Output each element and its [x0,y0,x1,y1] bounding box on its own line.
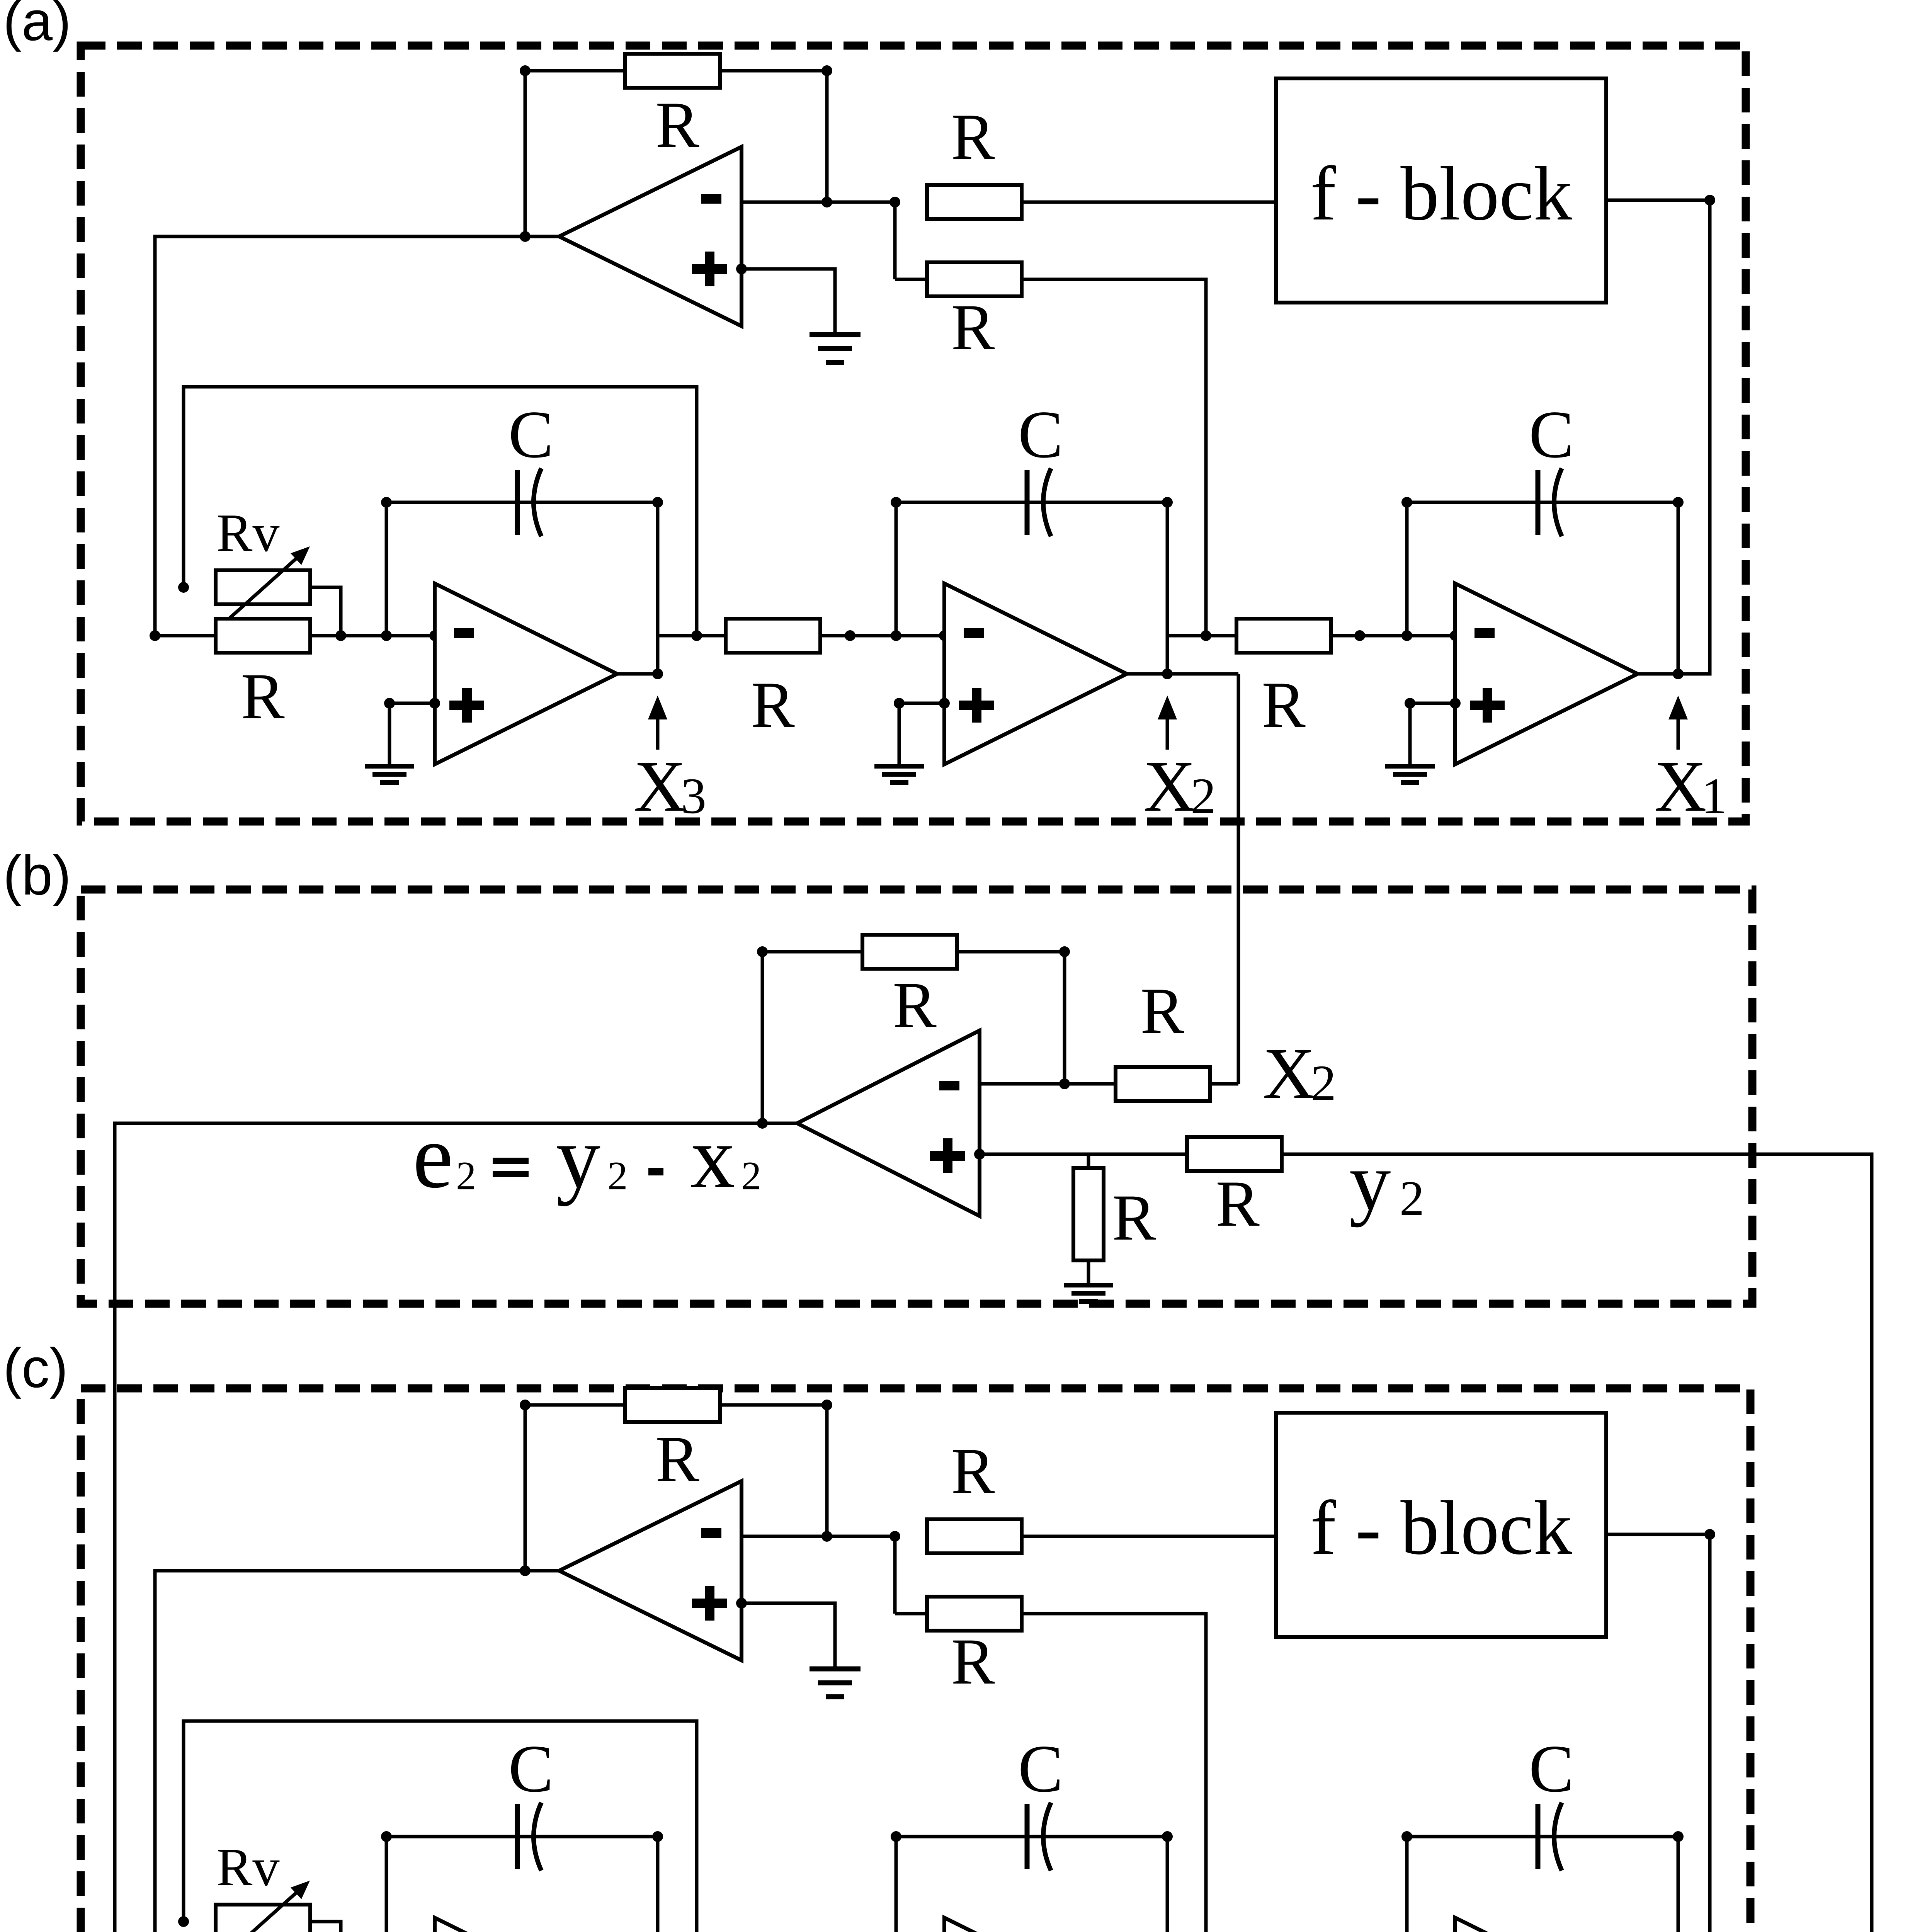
wire U4 plus to ground [1410,703,1455,766]
svg-text:3: 3 [681,767,706,824]
label C (U2) [509,397,554,472]
svg-text:R: R [655,1423,699,1495]
label C (U4) [1529,397,1574,472]
node int1 minus [429,630,440,641]
label X2 (a) [1143,746,1216,827]
ground (U6 plus) [810,1669,861,1697]
node U1 input line dot [520,231,531,242]
wire U6 feedback left vertical [524,1405,527,1571]
svg-text:C: C [509,1731,554,1806]
wire U2 cap-right vertical [656,502,660,674]
resistor R (y2 input) [1187,1137,1282,1171]
node U8 cap-right top [1162,1831,1173,1842]
wire upper R to f-block [1022,201,1276,204]
wire X2 drop to panel b [1237,674,1240,1084]
label R (U5 feedback) [893,969,937,1041]
wire U4 cap-left vertical [1405,502,1409,636]
wire U3 cap feedback line [896,501,1167,504]
node Rv left (c) [178,1916,189,1927]
label C (U3) [1018,397,1063,472]
wire lower branch vertical [893,202,897,279]
wire U1 feedback right vertical [825,71,829,202]
node U7 cap-left top [381,1831,392,1842]
wire X3 tee to R [658,634,726,638]
wire Rv right down [310,587,341,636]
label R (ground leg) [1112,1181,1156,1254]
wire U9 cap feedback line [1407,1835,1678,1838]
node U2 cap-left top [381,497,392,508]
svg-text:Rv: Rv [216,1837,279,1897]
capacitor C (U4) [1538,468,1562,536]
wire U1 output to left rail [155,236,559,636]
node U6 feedback top-right [821,1400,832,1410]
node U7 cap-right top [652,1831,663,1842]
wire upper R to f-block (c) [1022,1535,1276,1538]
node U5 feedback top-left [757,946,768,957]
label R (lower summing) [951,291,995,364]
wire U3 cap-right vertical [1166,502,1169,674]
op-amp U4 (integrator, points right) [1455,583,1638,764]
node U3 cap-left top [891,497,901,508]
wire U6 feedback to resistor [525,1403,625,1407]
wire lower R east then down to X2 node line [1022,279,1206,636]
wire U1 feedback right [720,69,827,73]
svg-text:C: C [1529,1731,1574,1806]
wire U6 feedback right [720,1403,827,1407]
wire U8 cap-left vertical [895,1837,898,1932]
wire R ground stub bottom [1087,1260,1090,1284]
op-amp U6 (inverter, points left) [559,1481,742,1660]
node U5 output line dot [757,1118,768,1129]
svg-text:R: R [893,969,937,1041]
wire U5 feedback left vertical [761,952,764,1123]
wire U1 feedback to resistor [525,69,625,73]
wire U4 cap-right vertical [1677,502,1680,674]
wire U5 feedback right [957,950,1065,954]
resistor R (U5 feedback) [862,935,957,969]
wire U5 plus input line [980,1153,1187,1156]
wire Rv loop top rail (c) [184,1721,697,1932]
node U3 output [1162,668,1173,679]
wire U6 plus to ground [742,1603,835,1669]
label X3 [634,746,706,827]
svg-text:R: R [951,100,995,173]
svg-text:R: R [951,1625,995,1698]
resistor R (stage 2-3) [1236,619,1331,653]
wire U2 cap feedback line [386,501,658,504]
op-amp U1 (inverter, points left) [559,147,742,326]
ground (U1 plus) [810,335,861,362]
node U3 cap-right top [1162,497,1173,508]
svg-text:R: R [241,660,285,733]
stroke Rv diagonal arrow [226,546,310,621]
node int2 minus [939,630,950,641]
label R (U1 feedback) [655,88,699,161]
svg-text:f - block: f - block [1310,151,1572,236]
label y2 (b) [1349,1135,1424,1228]
svg-text:2: 2 [607,1153,628,1198]
wire U6 feedback right vertical [825,1405,829,1536]
wire U4 cap feedback line [1407,501,1678,504]
wire Rv loop top rail [184,387,697,636]
node U5 feedback top-right [1059,946,1070,957]
svg-text:2: 2 [456,1153,476,1198]
wire U4 output [1638,672,1678,676]
resistor R (stage 1-2) [726,619,820,653]
node U4 plus corner [1405,698,1415,709]
op-amp U3 (integrator, points right) [944,583,1127,764]
node U6 minus junction [821,1531,832,1542]
wire lower branch to R [895,278,927,281]
label C (U8) [1018,1731,1063,1806]
svg-text:C: C [1529,397,1574,472]
node U4 plus [1450,698,1461,709]
wire U8 cap feedback line [896,1835,1167,1838]
panel (a) label [3,0,71,52]
node U3 plus [939,698,950,709]
wire U3 plus to ground [899,703,944,766]
svg-text:R: R [1140,975,1184,1047]
svg-text:(a): (a) [3,0,71,52]
wire U2 cap-left vertical [385,502,388,636]
arrow X2 [1158,696,1177,750]
panel (c) dashed border box [81,1388,1750,1932]
node f-block output dot [1704,195,1715,206]
label X1 [1654,746,1727,827]
node U2 cap-right top [652,497,663,508]
svg-text:R: R [1112,1181,1156,1254]
resistor R (to ground, b) [1073,1168,1104,1260]
op-amp U5 (subtractor, points left) [797,1031,980,1216]
node Rv-R junction [335,630,346,641]
wire U1 plus to ground [742,269,835,335]
wire main line to int1 [310,634,435,638]
svg-text:C: C [509,397,554,472]
wire R to int3 [1331,634,1455,638]
wire U3 cap-left vertical [895,502,898,636]
svg-text:R: R [1262,668,1306,741]
label R (stage 2-3) [1262,668,1306,741]
capacitor C (U7) [517,1803,541,1871]
node U6 feedback top-left [520,1400,531,1410]
resistor R (from y2 line, c) [927,1597,1022,1631]
node f-block output dot (c) [1704,1529,1715,1540]
svg-text:R: R [951,1435,995,1507]
wire R to int2 [820,634,944,638]
wire main line left segment [155,634,216,638]
wire U7 cap-left vertical [385,1837,388,1932]
arrow X3 [648,696,667,750]
node U9 cap-right top [1673,1831,1684,1842]
wire R ground stub top [1087,1154,1090,1168]
op-amp U9 (integrator, points right) [1455,1918,1638,1932]
resistor R (U6 feedback) [625,1388,720,1422]
label R (stage 1-2) [751,668,795,741]
node U6 plus dot [736,1598,747,1609]
svg-text:2: 2 [1190,767,1216,824]
wire U9 cap-left vertical [1405,1837,1409,1932]
node cap1 left junction [381,630,392,641]
resistor R (input, a) [216,619,310,653]
svg-text:(b): (b) [3,844,71,906]
wire f-block output down to X1 [1678,200,1710,674]
panel (b) label [3,844,71,906]
wire lower branch to R (c) [895,1612,927,1616]
node U1 minus junction [821,197,832,207]
ground (U4) [1385,766,1435,782]
capacitor C (U3) [1027,468,1051,536]
node X2 feed junction [1201,630,1211,641]
node summing junction A [889,197,900,207]
arrow X1 [1668,696,1688,750]
wire U5 minus input line [980,1082,1116,1086]
op-amp U7 (integrator, points right) [435,1918,617,1932]
node U1 feedback top-left [520,65,531,76]
wire U5 feedback right vertical [1063,952,1066,1084]
capacitor C (U8) [1027,1803,1051,1871]
wire U1 minus input line [742,201,895,204]
node U4 cap-right top [1673,497,1684,508]
svg-text:R: R [1216,1167,1260,1240]
wire lower R east then down (c) [1022,1614,1206,1932]
svg-text:X: X [1143,746,1196,827]
svg-text:C: C [1018,397,1063,472]
svg-text:2: 2 [741,1153,762,1198]
svg-text:2: 2 [1400,1171,1424,1226]
node cap2 left junction [891,630,901,641]
op-amp U2 (integrator, points right) [435,583,617,764]
capacitor C (U2) [517,468,541,536]
label X2 (b) [1263,1033,1336,1114]
svg-text:C: C [1018,1731,1063,1806]
node U2 output [652,668,663,679]
node U1 feedback top-right [821,65,832,76]
label R (U6 feedback) [655,1423,699,1495]
node main line left [150,630,160,641]
label f - block (c) [1310,1485,1572,1571]
svg-text:y: y [556,1108,600,1206]
node U4 cap-left top [1401,497,1412,508]
wire U6 minus input line [742,1535,895,1538]
wire U7 cap-right vertical [656,1837,660,1932]
wire U8 cap-right vertical [1166,1837,1169,1932]
wire f-block output down to y1 [1678,1534,1710,1932]
label R (y2 input) [1216,1167,1260,1240]
svg-text:2: 2 [1311,1054,1336,1111]
resistor R (from f-block output) [927,185,1022,219]
node U6 input line dot [520,1565,531,1576]
label R (input, a) [241,660,285,733]
svg-text:y: y [1349,1135,1391,1228]
svg-text:X: X [1654,746,1707,827]
panel (c) label [3,1337,68,1399]
wire lower branch vertical (c) [893,1536,897,1614]
wire e2 output rail [115,1123,797,1932]
svg-text:f - block: f - block [1310,1485,1572,1571]
wire U7 cap feedback line [386,1835,658,1838]
wire U2 plus to ground [389,703,435,766]
stroke Rv diagonal arrow (c) [226,1881,310,1932]
resistor R (U1 feedback) [625,54,720,88]
label R (upper summing) [951,100,995,173]
node U5 plus [974,1149,985,1160]
wire X2 R to drop [1210,1082,1238,1086]
wire y2 loop east and down [1240,1154,1872,1932]
node cap3 left junction [1401,630,1412,641]
wire Rv right down (c) [310,1922,341,1932]
wire X2 output to drop corner [1167,672,1238,676]
node U8 cap-left top [891,1831,901,1842]
panel (a) dashed border box [81,46,1746,821]
resistor R (from X2 line) [927,262,1022,296]
node U5 minus junction [1059,1078,1070,1089]
wire U3 output [1127,672,1167,676]
node after R 1-2 [845,630,855,641]
wire U2 output [617,672,658,676]
node int3 minus [1450,630,1461,641]
f-block box (a) [1276,78,1606,303]
svg-text:(c): (c) [3,1337,68,1399]
node Rv loop tee [691,630,702,641]
label e2 = y2 - x2 [413,1106,762,1207]
svg-text:X: X [634,746,686,827]
node after R 2-3 [1354,630,1365,641]
wire U6 output to left rail [155,1571,559,1932]
label R (upper summing, c) [951,1435,995,1507]
wire U5 feedback to resistor [762,950,862,954]
op-amp U8 (integrator, points right) [944,1918,1127,1932]
wire X2 tee to R [1167,634,1236,638]
label Rv (c) [216,1837,279,1897]
ground (b) [1064,1285,1113,1301]
node U2 plus corner [384,698,395,709]
node U3 plus corner [894,698,905,709]
resistor R (from f-block output, c) [927,1519,1022,1553]
label R (X2 input) [1140,975,1184,1047]
variable resistor Rv (a) [216,570,310,604]
node U2 plus [429,698,440,709]
capacitor C (U9) [1538,1803,1562,1871]
wire f-block output [1606,199,1710,202]
node U1 plus dot [736,264,747,274]
node U9 cap-left top [1401,1831,1412,1842]
variable resistor Rv (c) [216,1905,310,1932]
svg-text:R: R [751,668,795,741]
svg-text:e: e [413,1106,453,1207]
label Rv (a) [216,503,279,563]
wire U1 feedback left vertical [524,71,527,236]
resistor R (X2 input) [1116,1067,1210,1101]
wire U9 cap-right vertical [1677,1837,1680,1932]
label f - block (a) [1310,151,1572,236]
svg-text:R: R [655,88,699,161]
ground (U3) [874,766,924,782]
svg-text:x: x [690,1108,735,1206]
f-block box (c) [1276,1413,1606,1637]
node Rv left [178,582,189,593]
label C (U7) [509,1731,554,1806]
label C (U9) [1529,1731,1574,1806]
node U4 output [1673,668,1684,679]
svg-text:R: R [951,291,995,364]
svg-text:X: X [1263,1033,1315,1114]
svg-text:Rv: Rv [216,503,279,563]
wire f-block output (c) [1606,1533,1710,1536]
svg-text:1: 1 [1701,767,1727,824]
label R (lower summing, c) [951,1625,995,1698]
ground (U2) [365,766,414,782]
node summing junction C [889,1531,900,1542]
panel (b) dashed border box [81,889,1752,1304]
